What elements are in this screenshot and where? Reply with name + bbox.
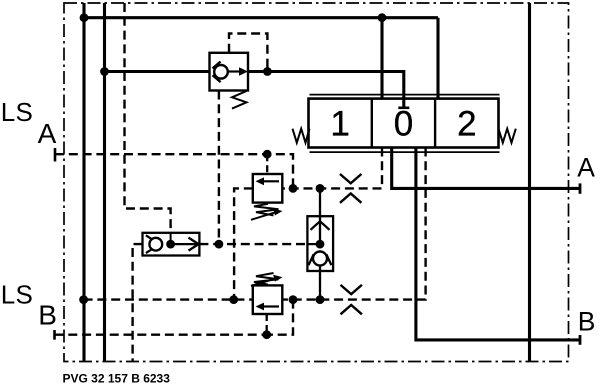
- shuttle valve SH1 body: [143, 233, 200, 256]
- spool valve U1 lower extension line: [310, 151, 500, 153]
- port A end tick: [579, 183, 582, 193]
- port B end tick: [579, 335, 582, 345]
- wire: compensator output line: [248, 72, 404, 108]
- check valve CV1 spring: [232, 91, 247, 109]
- wire: work port A line (thick): [392, 148, 580, 189]
- wire: work port B line (thick): [416, 148, 580, 340]
- shuttle valve SH1 seat lines: [146, 235, 152, 253]
- node: junction RV1 output: [289, 184, 298, 193]
- wire: RV2 output loop (dashed): [267, 300, 293, 335]
- svg-text:1: 1: [330, 105, 349, 144]
- wire: pump line to compensator: [105, 70, 210, 73]
- wire: riser to spool valve port (left): [380, 18, 383, 99]
- relief valve RV1 internal arrow: [263, 180, 279, 182]
- wire: riser to spool valve port (right corner): [436, 18, 439, 99]
- wire: LS gallery drop (dashed) from top border: [125, 3, 171, 233]
- node: junction LS A / RV1 pilot: [263, 150, 272, 159]
- wire: A-side shock line (dashed) from spool to relief RV1: [282, 148, 382, 189]
- wire: shuttle output line (dashed): [199, 243, 307, 245]
- wire: carry-over gallery vertical (right bus): [528, 3, 531, 362]
- node: junction left bus 2 / pump line: [100, 67, 109, 76]
- svg-text:PVG 32 157 B 6233: PVG 32 157 B 6233: [63, 372, 171, 386]
- check valve CV1 seat lines: [213, 62, 221, 83]
- wire: tank gallery vertical (left bus 1): [82, 3, 85, 362]
- svg-text:A: A: [577, 152, 595, 182]
- wire: B-side shock line (dashed) from spool to relief RV2: [282, 148, 425, 300]
- node: junction inside ACV: [316, 240, 325, 249]
- spool valve U1 left spring: [293, 129, 310, 143]
- check valve / pressure compensator CV1 body: [210, 53, 249, 91]
- relief valve RV2 spring: [254, 273, 279, 285]
- wire: RV2 pilot drop (dashed): [266, 314, 268, 335]
- port LS A tick: [54, 148, 57, 162]
- wire: SH1 top entry: [170, 233, 172, 244]
- node: junction left bus 1 / upper supply: [80, 13, 89, 22]
- svg-text:LS: LS: [1, 97, 33, 127]
- node: junction upper supply / spool riser: [378, 13, 387, 22]
- wire: CV1 pilot line (dashed): [229, 34, 267, 72]
- relief valve RV2 body: [253, 285, 282, 314]
- relief valve RV2 adjust arrow: [251, 279, 275, 286]
- wire: LS B line (dashed): [84, 298, 253, 300]
- svg-text:LS: LS: [1, 280, 33, 310]
- wire: port B pilot line (dashed): [55, 334, 267, 336]
- plugged connection X2 on B shock line: [341, 285, 362, 294]
- node: junction RV2 pilot / port B line: [262, 330, 271, 339]
- node: junction RV2 output: [289, 295, 298, 304]
- node: junction ACV bottom: [316, 295, 325, 304]
- wire: upper supply line to spool valve: [84, 16, 438, 19]
- ACV ball: [313, 252, 327, 266]
- node: junction LS B / left bus 1: [79, 295, 88, 304]
- relief valve RV1 spring: [254, 204, 279, 216]
- check valve CV1 flow arrow: [228, 70, 240, 72]
- node: junction pilot / compensator output: [263, 67, 272, 76]
- relief valve RV2 internal arrow: [263, 305, 279, 307]
- ACV seat lines: [309, 254, 332, 265]
- port B tick (left): [53, 330, 56, 340]
- wire: LS A line (dashed): [55, 154, 293, 188]
- shuttle valve SH1 output arrow: [171, 243, 198, 245]
- wire: compensator spring drain (dashed): [218, 91, 220, 245]
- svg-text:2: 2: [457, 105, 476, 144]
- spool valve U1 body (3 positions): [309, 99, 499, 148]
- wire: ACV left stub: [307, 243, 320, 245]
- ACV upper poppet chevron: [311, 221, 330, 230]
- node: junction drain / shuttle output: [215, 240, 224, 249]
- node: junction anti-cavitation valve top: [316, 184, 325, 193]
- closed port symbol (T-bar) at spool center position: [398, 107, 409, 110]
- wire: RV1 pilot drop (dashed): [266, 154, 268, 174]
- node: junction riser / RV2 input: [229, 295, 238, 304]
- shuttle valve SH1 ball: [149, 238, 162, 251]
- spool valve U1 right spring: [499, 129, 516, 143]
- svg-text:B: B: [38, 300, 57, 331]
- check valve CV1 ball: [214, 65, 228, 79]
- wire: SH1 left drain (dashed): [133, 244, 143, 361]
- svg-text:0: 0: [394, 105, 413, 144]
- svg-text:A: A: [38, 118, 57, 149]
- spool valve U1 upper extension line: [310, 94, 500, 96]
- wire: ACV top connection: [319, 188, 321, 244]
- relief valve RV1 adjust arrow: [251, 213, 275, 220]
- wire: RV1 input (dashed) to riser: [234, 188, 253, 299]
- relief valve RV1 body: [253, 174, 282, 203]
- plugged connection X1 on A shock line: [340, 174, 361, 183]
- enclosure boundary (dash-dot frame): [64, 3, 569, 362]
- anti-cavitation check valve ACV body: [307, 216, 333, 271]
- node: junction inside SH1: [166, 240, 175, 249]
- svg-text:B: B: [578, 306, 596, 336]
- wire: ACV bottom connection: [319, 266, 321, 300]
- wire: pump gallery vertical (left bus 2): [103, 3, 106, 362]
